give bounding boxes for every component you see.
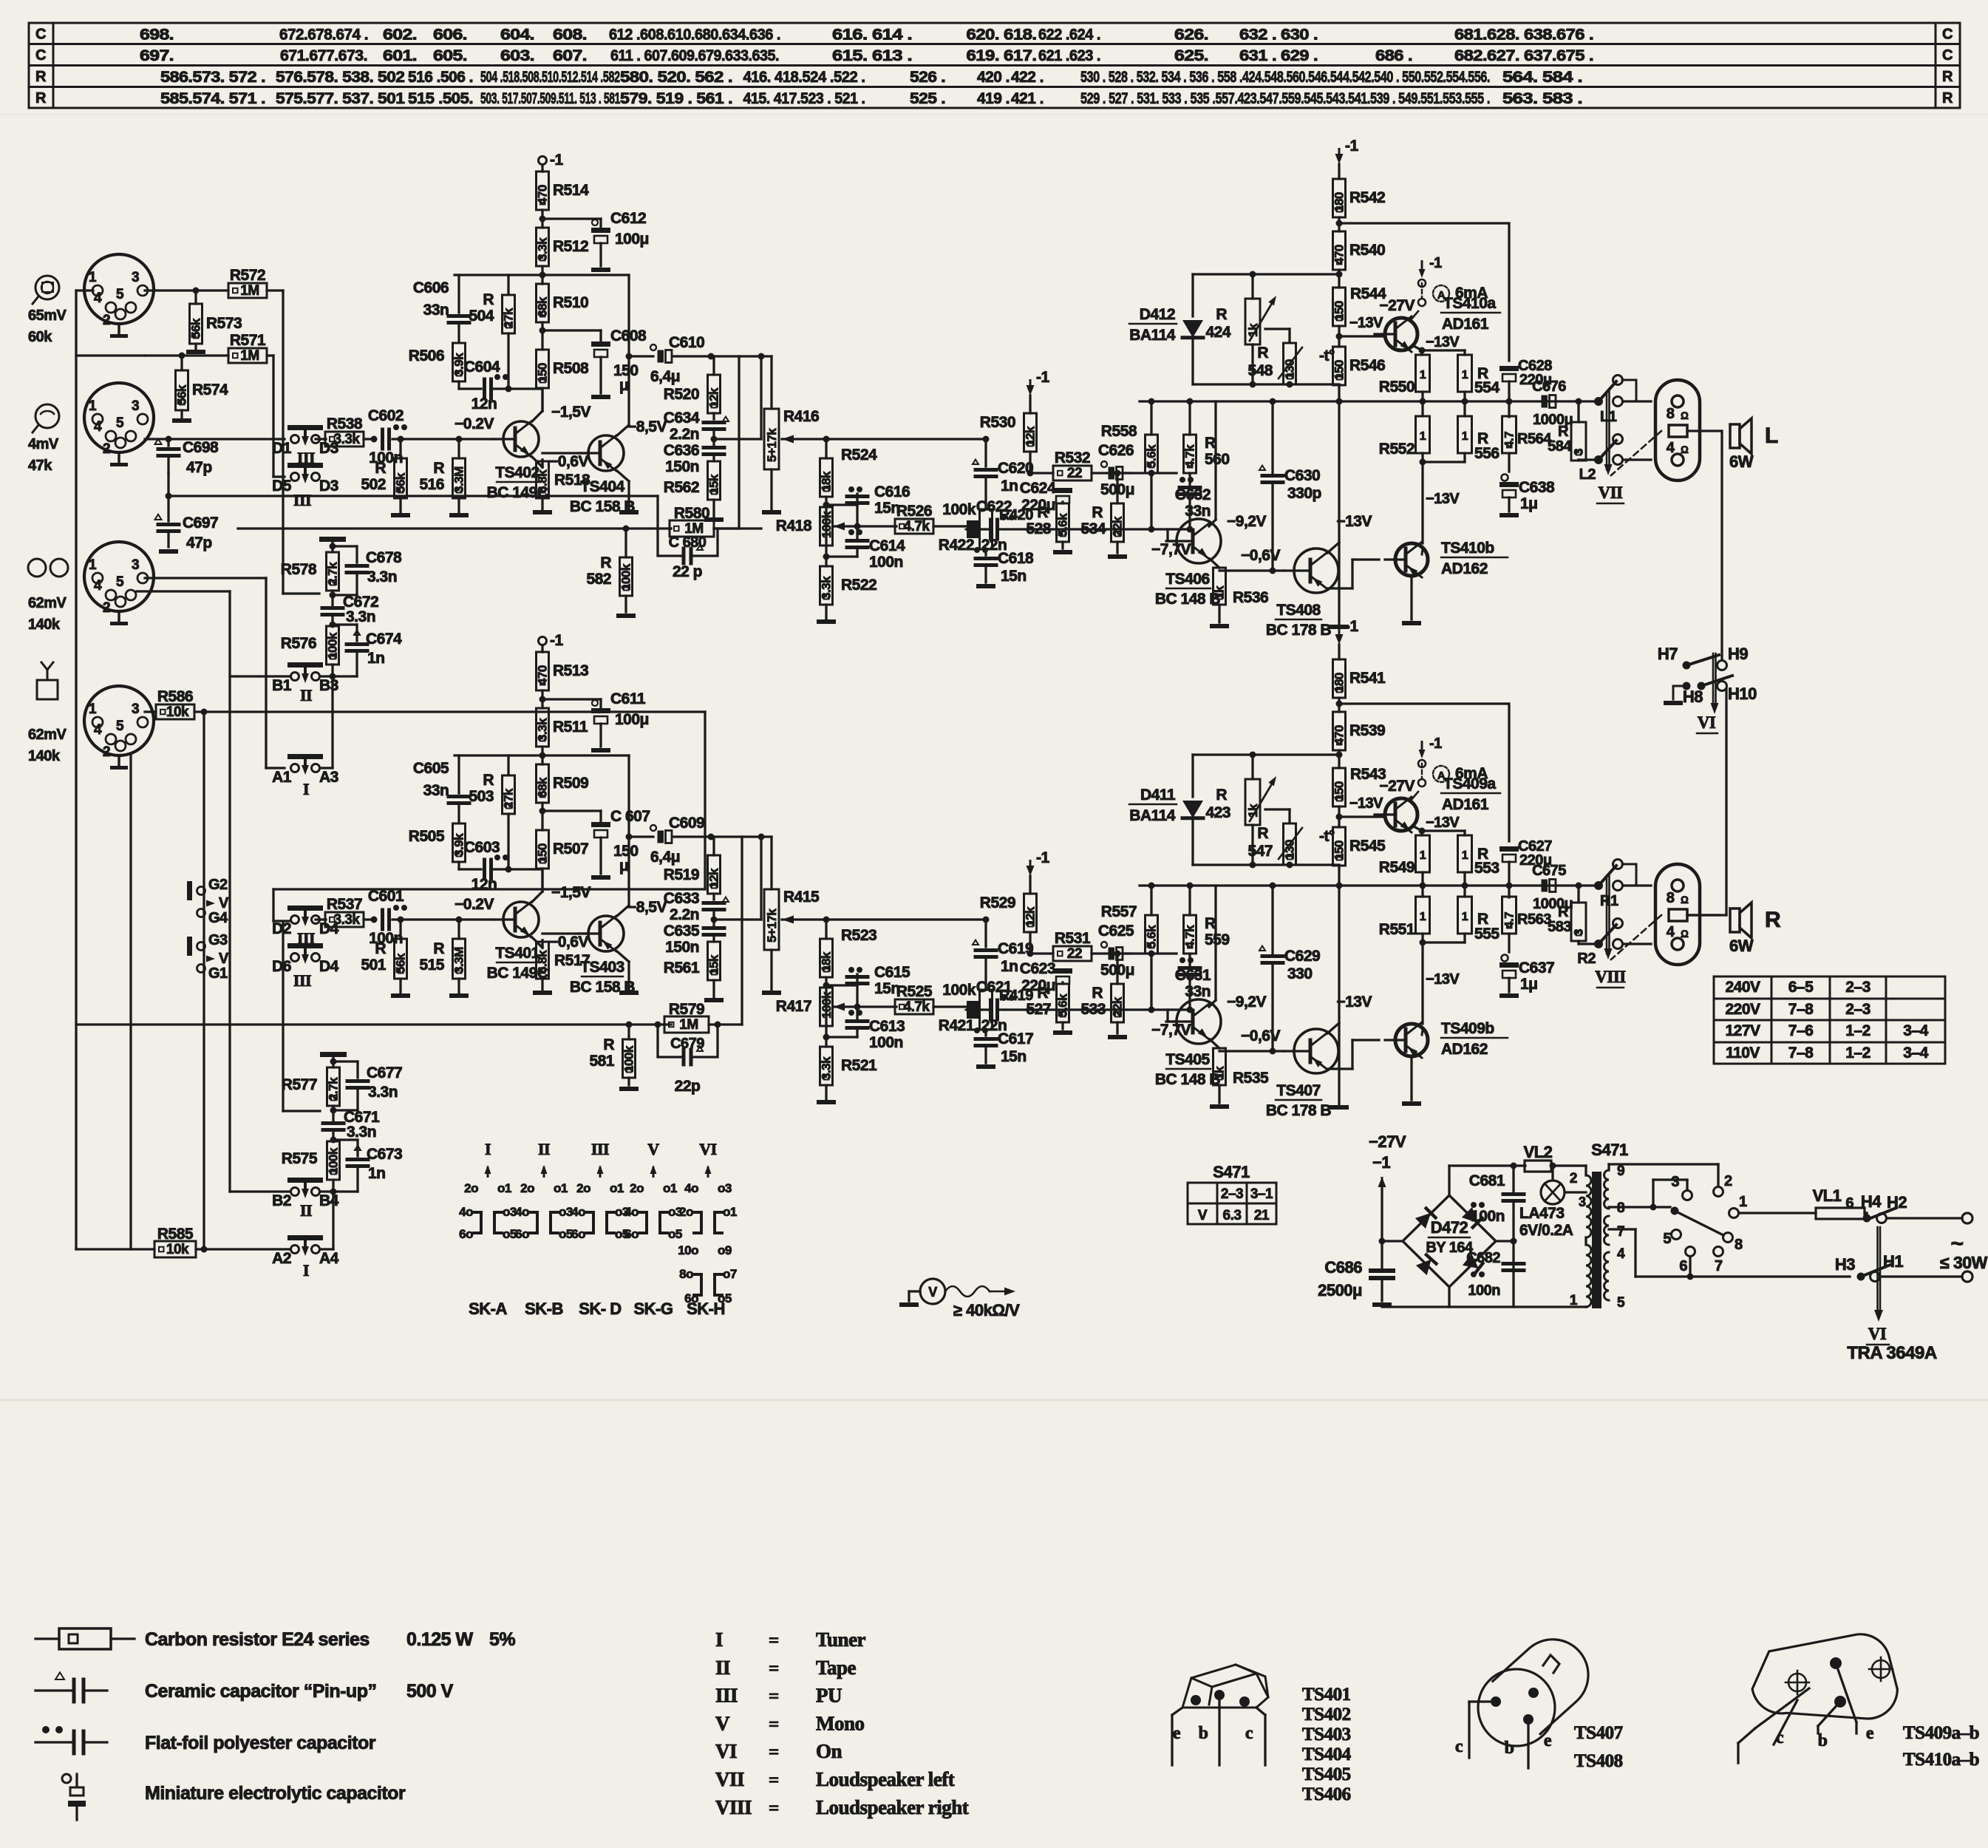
svg-text:1: 1 xyxy=(1420,369,1426,381)
svg-text:150: 150 xyxy=(1332,781,1347,801)
resistor R522 3.3k xyxy=(820,566,833,605)
resistor R544 150 xyxy=(1333,288,1346,326)
svg-text:−13V: −13V xyxy=(1426,815,1460,831)
svg-text:R: R xyxy=(375,460,386,477)
capacitor C626 500u xyxy=(1101,461,1107,467)
svg-text:420 .: 420 . xyxy=(977,69,1010,86)
svg-text:1: 1 xyxy=(89,398,97,414)
svg-text:c: c xyxy=(1245,1724,1253,1743)
svg-text:6o: 6o xyxy=(571,1227,585,1241)
svg-text:504 .518.508.510.512.514 .582: 504 .518.508.510.512.514 .582 . xyxy=(480,69,625,86)
emitter wire to TS408 base xyxy=(1219,1050,1284,1052)
switch arrow VI xyxy=(1876,1227,1879,1310)
svg-text:33n: 33n xyxy=(423,302,449,319)
svg-text:503: 503 xyxy=(469,788,494,805)
wire H10 to R speaker 4ohm xyxy=(1725,689,1727,915)
svg-text:R: R xyxy=(433,940,444,957)
wiper wire xyxy=(834,1003,845,1011)
svg-text:Ω: Ω xyxy=(1681,410,1689,421)
resistor R545 150 xyxy=(1333,827,1346,866)
legend ceramic capacitor xyxy=(55,1672,64,1679)
resistor R572 1M xyxy=(228,283,267,298)
resistor R577 2.7k xyxy=(332,1061,334,1067)
svg-text:56k: 56k xyxy=(175,384,189,405)
resistor R537 3.3k xyxy=(325,912,364,927)
svg-text:686 .: 686 . xyxy=(1375,47,1412,64)
voltmeter symbol xyxy=(920,1279,945,1304)
svg-text:C621: C621 xyxy=(976,979,1012,996)
switch A1/A3 tuner ch1 xyxy=(287,754,323,759)
resistor 584 3 xyxy=(1577,401,1579,422)
resistor R540 470 xyxy=(1333,231,1346,270)
svg-text:Ω: Ω xyxy=(1681,894,1689,906)
svg-text:583: 583 xyxy=(1548,919,1571,935)
svg-text:560: 560 xyxy=(1205,451,1230,468)
svg-text:R563: R563 xyxy=(1517,911,1551,928)
svg-text:−13V: −13V xyxy=(1426,334,1460,350)
resistor R523 18k xyxy=(825,920,827,939)
svg-text:47p: 47p xyxy=(186,459,212,476)
svg-text:R: R xyxy=(1942,69,1953,85)
transistor TS410a AD161 output npn xyxy=(1385,318,1417,350)
svg-text:C679: C679 xyxy=(670,1036,704,1052)
svg-text:127V: 127V xyxy=(1725,1022,1760,1039)
svg-text:C630: C630 xyxy=(1284,467,1320,484)
svg-text:100k: 100k xyxy=(622,1045,636,1073)
svg-text:7–8: 7–8 xyxy=(1788,1044,1814,1061)
svg-text:2: 2 xyxy=(103,744,110,760)
DIN connector PU input xyxy=(84,383,154,452)
svg-text:5: 5 xyxy=(116,719,124,734)
svg-text:R523: R523 xyxy=(841,927,876,944)
resistor R521 3.3k xyxy=(820,1047,833,1085)
capacitor C677 3.3n xyxy=(333,1060,358,1062)
svg-text:3.3k: 3.3k xyxy=(334,912,361,928)
svg-text:I: I xyxy=(303,1261,309,1280)
svg-text:3.3n: 3.3n xyxy=(368,1084,398,1101)
svg-text:423: 423 xyxy=(1205,804,1230,821)
svg-text:3: 3 xyxy=(132,270,139,285)
svg-text:10k: 10k xyxy=(166,704,189,720)
svg-text:I: I xyxy=(485,1140,491,1158)
svg-text:II: II xyxy=(300,686,312,704)
svg-text:μ: μ xyxy=(619,377,628,394)
resistor 555 1 xyxy=(1463,886,1466,897)
svg-text:VIII: VIII xyxy=(1595,968,1626,986)
resistor R506 3.9k xyxy=(453,343,466,381)
svg-text:S471: S471 xyxy=(1213,1163,1250,1181)
svg-text:D3: D3 xyxy=(319,478,338,495)
svg-text:18k: 18k xyxy=(820,951,834,972)
svg-text:TRA 3649A: TRA 3649A xyxy=(1847,1343,1936,1363)
svg-text:15n: 15n xyxy=(1001,568,1027,585)
svg-text:1M: 1M xyxy=(240,283,259,299)
svg-text:VII: VII xyxy=(715,1768,744,1790)
svg-text:R: R xyxy=(483,291,494,308)
svg-text:-1: -1 xyxy=(1429,255,1442,271)
svg-text:27k: 27k xyxy=(502,308,516,328)
svg-text:608.: 608. xyxy=(553,27,587,44)
svg-text:555: 555 xyxy=(1474,925,1499,942)
svg-text:TS408: TS408 xyxy=(1276,602,1321,619)
svg-text:6.3: 6.3 xyxy=(1223,1208,1242,1223)
svg-text:100k: 100k xyxy=(820,511,834,538)
svg-text:TS406: TS406 xyxy=(1165,571,1209,588)
svg-text:7: 7 xyxy=(1715,1258,1723,1274)
secondary winding xyxy=(1604,1170,1610,1209)
svg-text:22n: 22n xyxy=(981,1017,1007,1034)
svg-text:VI: VI xyxy=(715,1740,737,1762)
svg-text:R: R xyxy=(1092,985,1103,1002)
resistor R581 100k xyxy=(627,1025,630,1039)
svg-text:R531: R531 xyxy=(1055,930,1091,947)
svg-text:1: 1 xyxy=(1462,849,1468,862)
cluster2 bottom to switches xyxy=(320,1190,333,1192)
svg-text:622 .624 .: 622 .624 . xyxy=(1038,27,1100,44)
wire y671 PU return xyxy=(168,495,658,497)
svg-text:4: 4 xyxy=(94,722,102,738)
svg-text:2.2n: 2.2n xyxy=(670,906,699,923)
svg-text:e: e xyxy=(1866,1724,1874,1743)
svg-text:o3: o3 xyxy=(503,1205,517,1219)
svg-text:5: 5 xyxy=(116,415,124,431)
wiper wire to R548 xyxy=(1265,808,1290,810)
capacitor C621 22n xyxy=(964,1006,975,1014)
svg-text:Ω: Ω xyxy=(1681,444,1689,455)
svg-text:R: R xyxy=(1037,985,1048,1002)
svg-text:1n: 1n xyxy=(1001,958,1018,975)
capacitor C681 100n xyxy=(1512,1166,1514,1192)
svg-text:C631: C631 xyxy=(1175,967,1211,984)
svg-text:BA114: BA114 xyxy=(1129,327,1176,344)
svg-text:625.: 625. xyxy=(1174,47,1208,64)
svg-text:−0,6V: −0,6V xyxy=(1241,547,1280,564)
svg-text:c: c xyxy=(1455,1737,1463,1756)
svg-text:140k: 140k xyxy=(28,748,61,764)
svg-text:−1,5V: −1,5V xyxy=(551,404,590,421)
svg-text:1n: 1n xyxy=(367,650,385,667)
base wire -13V to TS409a xyxy=(1339,815,1385,818)
svg-text:585.574. 571 .: 585.574. 571 . xyxy=(160,90,265,107)
svg-text:470: 470 xyxy=(536,665,550,685)
supply -1 R529 xyxy=(1029,860,1032,870)
svg-text:553: 553 xyxy=(1474,860,1499,877)
svg-text:1μ: 1μ xyxy=(1520,495,1538,512)
svg-text:H10: H10 xyxy=(1728,684,1757,703)
capacitor C604 12n xyxy=(459,387,481,390)
diode D412 BA114 xyxy=(1191,274,1194,316)
svg-text:G4: G4 xyxy=(208,910,228,926)
svg-text:Loudspeaker left: Loudspeaker left xyxy=(816,1768,955,1790)
svg-text:C611: C611 xyxy=(610,690,646,707)
svg-text:H7: H7 xyxy=(1658,645,1678,663)
svg-text:C634: C634 xyxy=(664,410,700,427)
capacitor C629 330p xyxy=(1271,886,1273,954)
svg-text:o7: o7 xyxy=(723,1267,737,1281)
svg-text:-1: -1 xyxy=(1429,736,1442,752)
svg-text:6mA: 6mA xyxy=(1455,285,1488,302)
resistor R417 100k tone pot xyxy=(820,988,833,1026)
svg-text:604.: 604. xyxy=(500,27,534,44)
svg-text:−0.2V: −0.2V xyxy=(455,896,494,913)
svg-text:R422: R422 xyxy=(939,537,974,554)
svg-text:R572: R572 xyxy=(230,267,265,284)
svg-text:TS403: TS403 xyxy=(1302,1725,1351,1745)
svg-text:AD161: AD161 xyxy=(1442,796,1489,813)
svg-text:56k: 56k xyxy=(394,953,408,974)
capacitor C617 15n xyxy=(984,1030,987,1036)
resistor R546 150 xyxy=(1333,347,1346,385)
resistor R526 4.7k xyxy=(895,519,933,534)
svg-text:1: 1 xyxy=(89,557,97,573)
svg-text:R1: R1 xyxy=(1600,893,1618,909)
svg-text:-1: -1 xyxy=(550,632,563,649)
svg-text:1n: 1n xyxy=(1001,478,1018,495)
svg-text:470: 470 xyxy=(536,185,550,205)
svg-text:12k: 12k xyxy=(707,868,721,889)
svg-text:4.7k: 4.7k xyxy=(904,999,930,1015)
svg-text:56k: 56k xyxy=(189,318,203,339)
svg-text:V: V xyxy=(715,1712,730,1734)
4 ohm wire xyxy=(1687,914,1720,916)
svg-text:6V/0.2A: 6V/0.2A xyxy=(1519,1222,1573,1239)
svg-text:R416: R416 xyxy=(783,408,819,425)
supply -1 node xyxy=(539,637,547,645)
svg-text:681.628. 638.676 .: 681.628. 638.676 . xyxy=(1454,27,1593,44)
svg-text:BA114: BA114 xyxy=(1129,807,1176,824)
svg-text:3.3k: 3.3k xyxy=(334,432,361,447)
svg-text:R418: R418 xyxy=(776,517,812,534)
svg-text:582: 582 xyxy=(586,571,611,588)
svg-text:4o: 4o xyxy=(515,1205,529,1219)
svg-text:4: 4 xyxy=(94,419,102,435)
trimpot 424 1k xyxy=(1251,274,1253,299)
capacitor C619 1n xyxy=(983,917,990,923)
svg-text:Miniature electrolytic capacit: Miniature electrolytic capacitor xyxy=(145,1783,406,1804)
svg-text:BC 178 B: BC 178 B xyxy=(1266,622,1332,639)
svg-text:R507: R507 xyxy=(553,840,588,857)
svg-text:1: 1 xyxy=(1462,911,1468,923)
output switch L1/L2 xyxy=(1594,397,1603,406)
svg-text:424: 424 xyxy=(1205,324,1230,341)
wire to speaker connector xyxy=(1623,884,1651,886)
svg-text:581: 581 xyxy=(589,1053,614,1070)
svg-text:6.8k: 6.8k xyxy=(536,469,550,493)
switch D2/D4 input select ch2 xyxy=(287,906,323,911)
svg-text:626.: 626. xyxy=(1174,27,1208,44)
tape icon xyxy=(28,559,46,577)
resistor R558 5.6k xyxy=(1146,435,1158,473)
resistor R520 12k xyxy=(712,356,715,375)
svg-text:8o: 8o xyxy=(679,1267,693,1281)
resistor R507 150 xyxy=(537,830,549,869)
resistor R580 1M xyxy=(670,520,714,537)
svg-text:R: R xyxy=(1092,504,1103,521)
svg-text:R541: R541 xyxy=(1349,670,1386,687)
svg-text:22: 22 xyxy=(1067,946,1082,962)
resistor 583 3 xyxy=(1577,886,1579,903)
resistor 556 1 xyxy=(1463,401,1466,416)
svg-text:b: b xyxy=(1818,1731,1828,1750)
svg-text:−0.2V: −0.2V xyxy=(455,415,494,432)
svg-text:≥ 40kΩ/V: ≥ 40kΩ/V xyxy=(953,1301,1020,1319)
svg-text:240V: 240V xyxy=(1725,979,1760,996)
transistor TS408 BC178B driver pnp xyxy=(1294,548,1338,593)
resistor R574 56k xyxy=(176,370,188,410)
capacitor C628 220u xyxy=(1499,366,1519,371)
svg-text:62mV: 62mV xyxy=(28,727,67,743)
svg-text:47k: 47k xyxy=(28,458,52,474)
selector lower contacts xyxy=(1672,1230,1681,1240)
svg-text:D472: D472 xyxy=(1431,1218,1468,1237)
volume pot R419 100k xyxy=(980,990,993,1030)
wire to speaker connector xyxy=(1623,400,1651,402)
svg-text:530 . 528 . 532. 534 . 536 . 5: 530 . 528 . 532. 534 . 536 . 558 .424.54… xyxy=(1080,69,1490,86)
svg-text:L: L xyxy=(1765,424,1778,448)
svg-text:620. 618.: 620. 618. xyxy=(967,27,1037,44)
emitter wire to TS408 base xyxy=(1219,569,1284,571)
capacitor C632 33n xyxy=(1188,473,1191,487)
transistor TS410b AD162 output pnp xyxy=(1395,543,1428,576)
svg-text:o1: o1 xyxy=(610,1181,624,1195)
resistor R551 1 xyxy=(1421,886,1423,897)
svg-text:−7,7V: −7,7V xyxy=(1151,1022,1191,1039)
svg-text:68k: 68k xyxy=(536,296,550,317)
svg-text:R508: R508 xyxy=(553,360,589,377)
svg-text:615. 613 .: 615. 613 . xyxy=(832,47,912,64)
svg-text:A: A xyxy=(1437,770,1446,782)
svg-text:TS409a–b: TS409a–b xyxy=(1903,1723,1979,1743)
capacitor C609 6.4u coupling xyxy=(629,835,653,838)
transistor TS405 BC148B xyxy=(1177,999,1221,1044)
svg-text:3: 3 xyxy=(132,702,139,717)
resistor 502 56k xyxy=(399,439,401,458)
svg-text:Ω: Ω xyxy=(1681,928,1689,940)
svg-text:6.8k: 6.8k xyxy=(536,950,550,974)
resistor R576 100k xyxy=(327,626,339,665)
svg-text:R415: R415 xyxy=(783,889,820,906)
transistor TS409a AD161 output npn xyxy=(1385,798,1417,831)
capacitor C614 100n xyxy=(826,555,857,557)
svg-text:o5: o5 xyxy=(559,1227,573,1241)
svg-text:R: R xyxy=(1216,306,1227,323)
package TO-3 drawing TS409 TS410 xyxy=(1751,1628,1900,1720)
svg-text:419 .: 419 . xyxy=(977,90,1010,107)
resistor R508 150 xyxy=(537,350,549,388)
svg-text:501: 501 xyxy=(361,957,386,974)
svg-text:o3: o3 xyxy=(559,1205,573,1219)
svg-text:5%: 5% xyxy=(489,1629,515,1650)
svg-text:0.125 W: 0.125 W xyxy=(406,1629,474,1650)
svg-text:500μ: 500μ xyxy=(1100,481,1134,498)
svg-text:C610: C610 xyxy=(669,334,704,351)
svg-text:C681: C681 xyxy=(1469,1172,1505,1189)
svg-text:100k: 100k xyxy=(942,982,976,999)
svg-text:3: 3 xyxy=(1671,1174,1679,1190)
svg-text:D411: D411 xyxy=(1140,787,1176,804)
svg-text:4o: 4o xyxy=(684,1181,698,1195)
svg-text:TS402: TS402 xyxy=(1302,1705,1351,1725)
feedback rail ch2 xyxy=(76,1023,671,1025)
svg-text:D5: D5 xyxy=(272,478,292,495)
svg-text:C601: C601 xyxy=(368,888,404,905)
svg-text:C626: C626 xyxy=(1098,442,1134,459)
resistor R563 4.7 xyxy=(1508,886,1510,897)
svg-text:3: 3 xyxy=(1579,1195,1586,1209)
svg-text:B1: B1 xyxy=(272,677,292,694)
dashed link to 4ohm xyxy=(1611,431,1661,475)
svg-text:R578: R578 xyxy=(281,561,317,578)
svg-text:o1: o1 xyxy=(497,1181,511,1195)
svg-text:C673: C673 xyxy=(367,1146,402,1163)
svg-text:R564: R564 xyxy=(1517,431,1552,447)
svg-text:C675: C675 xyxy=(1532,863,1566,879)
resistor R509 68k xyxy=(537,764,549,803)
svg-text:584: 584 xyxy=(1548,438,1572,455)
svg-text:TS410a–b: TS410a–b xyxy=(1903,1750,1979,1770)
svg-text:SK-A: SK-A xyxy=(469,1300,507,1318)
svg-text:o1: o1 xyxy=(663,1181,677,1195)
capacitor C634 2.2n xyxy=(712,413,715,419)
DIN connector antenna/tuner2 input xyxy=(84,686,154,755)
TS408 collector to TS410b base xyxy=(1327,587,1339,589)
svg-text:515: 515 xyxy=(419,957,444,974)
svg-text:2: 2 xyxy=(1724,1173,1732,1189)
svg-text:C623: C623 xyxy=(1020,960,1055,977)
svg-text:On: On xyxy=(816,1740,842,1762)
svg-text:VI: VI xyxy=(699,1140,716,1158)
svg-text:4o: 4o xyxy=(459,1205,473,1219)
svg-text:BC 148 B: BC 148 B xyxy=(1155,591,1221,608)
svg-text:602.: 602. xyxy=(383,27,417,44)
rail to C609 junction xyxy=(709,1023,742,1025)
resistor R564 4.7 xyxy=(1508,401,1510,417)
svg-text:22n: 22n xyxy=(981,537,1007,554)
svg-text:100k: 100k xyxy=(327,1147,341,1175)
resistor 515 3.3M xyxy=(457,920,460,939)
svg-text:6: 6 xyxy=(1845,1195,1853,1212)
TS408 collector to TS410b base xyxy=(1327,1067,1339,1070)
svg-text:1k: 1k xyxy=(1213,585,1227,599)
potentiometer R416 5+17k xyxy=(764,409,779,469)
svg-text:R535: R535 xyxy=(1233,1070,1269,1087)
svg-text:2: 2 xyxy=(103,441,110,457)
svg-text:TS409b: TS409b xyxy=(1441,1020,1494,1037)
svg-text:697.: 697. xyxy=(140,47,174,64)
svg-text:415. 417.523 . 521 .: 415. 417.523 . 521 . xyxy=(743,90,865,107)
svg-text:150: 150 xyxy=(1332,840,1347,860)
switch G3/G1 mono xyxy=(187,937,192,956)
svg-text:R573: R573 xyxy=(206,315,242,332)
svg-text:C638: C638 xyxy=(1519,479,1555,496)
svg-text:−0,6V: −0,6V xyxy=(1241,1027,1280,1044)
svg-text:A3: A3 xyxy=(319,769,338,786)
svg-text:C615: C615 xyxy=(874,964,910,981)
thermistor 548 130 xyxy=(1284,343,1296,384)
svg-text:o1: o1 xyxy=(723,1205,737,1219)
dashed link to 4ohm xyxy=(1611,915,1661,959)
svg-text:C625: C625 xyxy=(1098,923,1134,940)
resistor R529 12k xyxy=(1024,894,1037,932)
capacitor C638 1u xyxy=(1502,475,1508,481)
TS406 collector to -13V rail xyxy=(1209,1000,1216,1007)
svg-text:421 .: 421 . xyxy=(1011,90,1044,107)
svg-text:C614: C614 xyxy=(869,537,905,554)
svg-text:-1: -1 xyxy=(550,152,563,169)
capacitor C631 33n xyxy=(1188,954,1191,968)
svg-text:2.7k: 2.7k xyxy=(326,562,340,585)
svg-text:7–8: 7–8 xyxy=(1788,1001,1814,1018)
